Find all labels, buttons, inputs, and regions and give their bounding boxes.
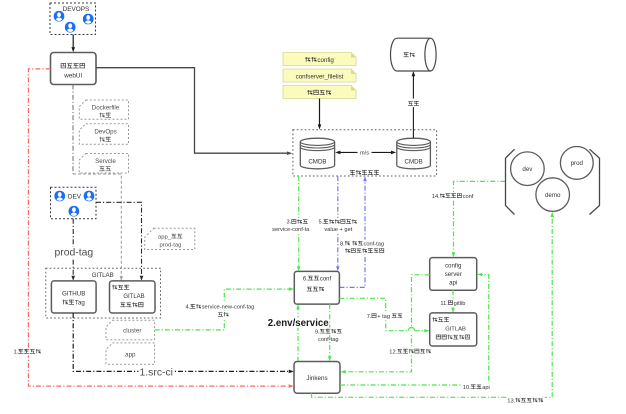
svg-text:12.: 12. [389,349,397,355]
svg-text:Jinkens: Jinkens [306,375,327,382]
svg-text:+ tag: + tag [377,314,390,320]
wire 7 版+tag生成: generator to config store (green) [339,298,429,332]
svg-text:api: api [449,279,457,286]
wire 5 判断是否更新: CMDB to generator (blue) [336,176,340,271]
bracket left of env group [506,149,515,214]
svg-text:Servcle: Servcle [95,158,116,165]
svg-text:GITLAB: GITLAB [123,294,144,300]
svg-text:Dockerfile: Dockerfile [92,105,120,112]
circle dev [511,152,545,186]
group DEV users [51,187,97,219]
svg-text:DEV: DEV [68,194,82,201]
svg-text:11.: 11. [440,301,448,307]
svg-text:CMDB: CMDB [308,158,326,165]
svg-text:13.: 13. [507,398,515,404]
svg-text:conf-tag: conf-tag [363,241,384,247]
svg-text:GITLAB: GITLAB [445,326,466,332]
svg-text:1.: 1. [14,350,19,356]
wire 9 返回实例conf-tag: generator to Jinkens (green) [328,304,332,361]
wire 13 发布或重启: Jinkens to demo env (green) [312,212,555,397]
svg-text:prod-tag: prod-tag [55,248,94,259]
svg-text:service-conf-ta: service-conf-ta [272,227,310,233]
database CMDB slave [397,138,431,169]
group CMDB master/slave [293,130,437,176]
database CMDB master [300,138,334,169]
svg-text:3.: 3. [287,220,292,226]
card DevOps 脚本 [79,124,128,145]
svg-text:CMDB: CMDB [404,158,422,165]
wire 8 存实例conf-tag: generator to CMDB (blue) [339,176,366,287]
label 1.src-ci [139,367,175,379]
wire 10 调用api: Jinkens to config api (green) [340,273,489,385]
box 运维平台 webUI [51,53,97,85]
label 4.对比service-new-conf-tag 更新 [185,303,257,318]
box 生成器 (6.生成conf) [294,271,339,304]
box GITHUB 打包Tag [51,281,96,313]
box Jinkens [294,362,340,394]
label 2.env/service [266,317,331,329]
wire webUI to GITLAB template store (dashed) [73,85,123,281]
box 带版本 GITLAB 配置文件存储 [430,313,477,346]
label 7.牌+tag生成 [366,312,404,320]
group DEVOPS users [50,3,96,35]
note confserver_filelist [283,69,356,82]
svg-text:conf: conf [320,276,332,282]
wire m/s between CMDB [335,148,396,157]
label 11.取gitlib [439,299,466,307]
wire DEVOPS to webUI [71,35,75,53]
box config server api [430,258,477,291]
svg-text:7.: 7. [367,314,372,320]
card app [106,343,155,364]
label 1.手动更新 [13,348,43,356]
group GITLAB [46,268,161,318]
svg-text:service-new-conf-tag: service-new-conf-tag [202,305,255,311]
wire CMDB slave to 异地 (每天) [407,71,421,138]
svg-text:Tag: Tag [75,300,86,307]
label 14.启动前取conf [431,192,475,200]
label 10.调用api [462,383,491,391]
svg-text:config: config [445,263,462,270]
svg-text:config: config [317,57,334,64]
svg-text:value + get: value + get [324,227,352,233]
svg-text:gitlib: gitlib [454,301,466,307]
svg-text:conf: conf [463,194,474,200]
svg-text:9.: 9. [315,329,320,335]
svg-text:webUI: webUI [63,73,82,80]
wire 7 hop over wire 12 [408,327,414,334]
wire DEV to GITHUB (prod-tag) [71,219,75,281]
svg-text:14.: 14. [432,194,440,200]
label 5.判断是否更新 value + get [318,218,359,233]
svg-text:4.: 4. [186,305,191,311]
label prod-tag [53,247,96,259]
card Dockerfile 脚本 [79,100,128,119]
svg-text:api: api [482,385,490,391]
circle prod [560,147,593,180]
svg-text:confserver_filelist: confserver_filelist [296,73,344,80]
svg-text:prod: prod [571,160,584,167]
svg-text:10.: 10. [463,385,471,391]
svg-text:app: app [125,352,136,359]
label 3.取实例 service-conf-ta [271,218,311,233]
wire 4 对比: cluster to generator (green) [155,287,295,330]
wire DEV to versioned GITLAB template store [96,202,143,281]
label 8.存 实例conf-tag 是否更新改成否 [339,240,386,255]
wire gray webUI to CMDB group [96,68,292,155]
svg-text:6.: 6. [303,276,308,282]
card app_模版 prod-tag [145,228,195,249]
svg-text:conf-tag: conf-tag [318,337,339,343]
label 9.返回实例 conf-tag [314,328,344,343]
svg-text:8.: 8. [340,241,345,247]
svg-text:2.env/service: 2.env/service [268,318,329,329]
database 异地 (offsite) [390,38,436,71]
svg-text:DevOps: DevOps [94,129,116,136]
svg-text:prod-tag: prod-tag [160,242,182,248]
wire 11 取gitlib: config api to config store (green) [451,290,455,313]
svg-text:1.src-ci: 1.src-ci [140,367,173,378]
svg-text:GITHUB: GITHUB [62,291,85,298]
wire 1.src-ci GITHUB to Jinkens [73,313,294,373]
svg-text:server: server [445,271,462,278]
wire 12 返回是否正常: config api to Jinkens (green) [340,275,429,374]
bracket right of env group [590,149,600,214]
svg-text:demo: demo [545,192,561,199]
label 13.发布或重启 [506,397,545,405]
note 是否更新 [283,86,356,99]
note 服务config [283,53,356,66]
wire 14 启动前取conf: env group to config api (green) [452,181,506,257]
card cluster [106,320,155,340]
box 带版本 GITLAB 模版存储 [110,281,156,313]
svg-text:dev: dev [522,166,533,173]
svg-text:5.: 5. [319,220,324,226]
wire 3 取实例: CMDB to generator (green) [297,176,301,271]
svg-text:GITLAB: GITLAB [92,272,114,279]
wire 2 env/service: Jinkens to generator (green) [296,304,300,361]
svg-text:app_: app_ [158,234,172,240]
wire notes to CMDB group [318,99,322,130]
card Servcle 模版 [79,154,128,174]
circle demo [536,178,570,212]
svg-text:m/s: m/s [360,151,369,157]
svg-text:cluster: cluster [123,328,141,335]
label 12.返回是否正常 [388,348,432,356]
svg-text:DEVOPS: DEVOPS [63,6,90,13]
wire red manual-update: webUI to Jinkens (left/bottom) [28,69,293,388]
